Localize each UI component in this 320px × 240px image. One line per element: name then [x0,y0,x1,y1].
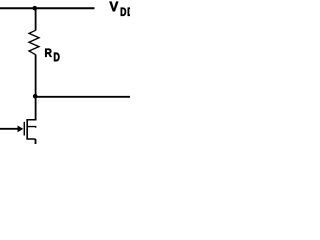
transistor Q1 channel bar [26,119,28,140]
wire VDD top rail [0,7,95,9]
transistor Q1 body stub [27,127,36,128]
resistor RD [29,30,39,54]
node junction dot on VDD rail [33,6,38,11]
wire node to drain bend [35,97,37,120]
wire gate lead [0,128,19,130]
label RD [45,49,59,62]
wire resistor to output node [35,55,37,97]
wire source lead [35,139,37,144]
label VDD [110,2,134,16]
node output junction dot [33,94,38,99]
transistor Q1 drain connection [26,119,36,121]
wire rail to resistor [35,8,37,30]
wire output node to right edge [35,96,130,98]
transistor Q1 gate arrowhead [18,126,24,133]
transistor Q1 source connection [26,138,35,140]
transistor Q1 gate bar [23,122,25,136]
